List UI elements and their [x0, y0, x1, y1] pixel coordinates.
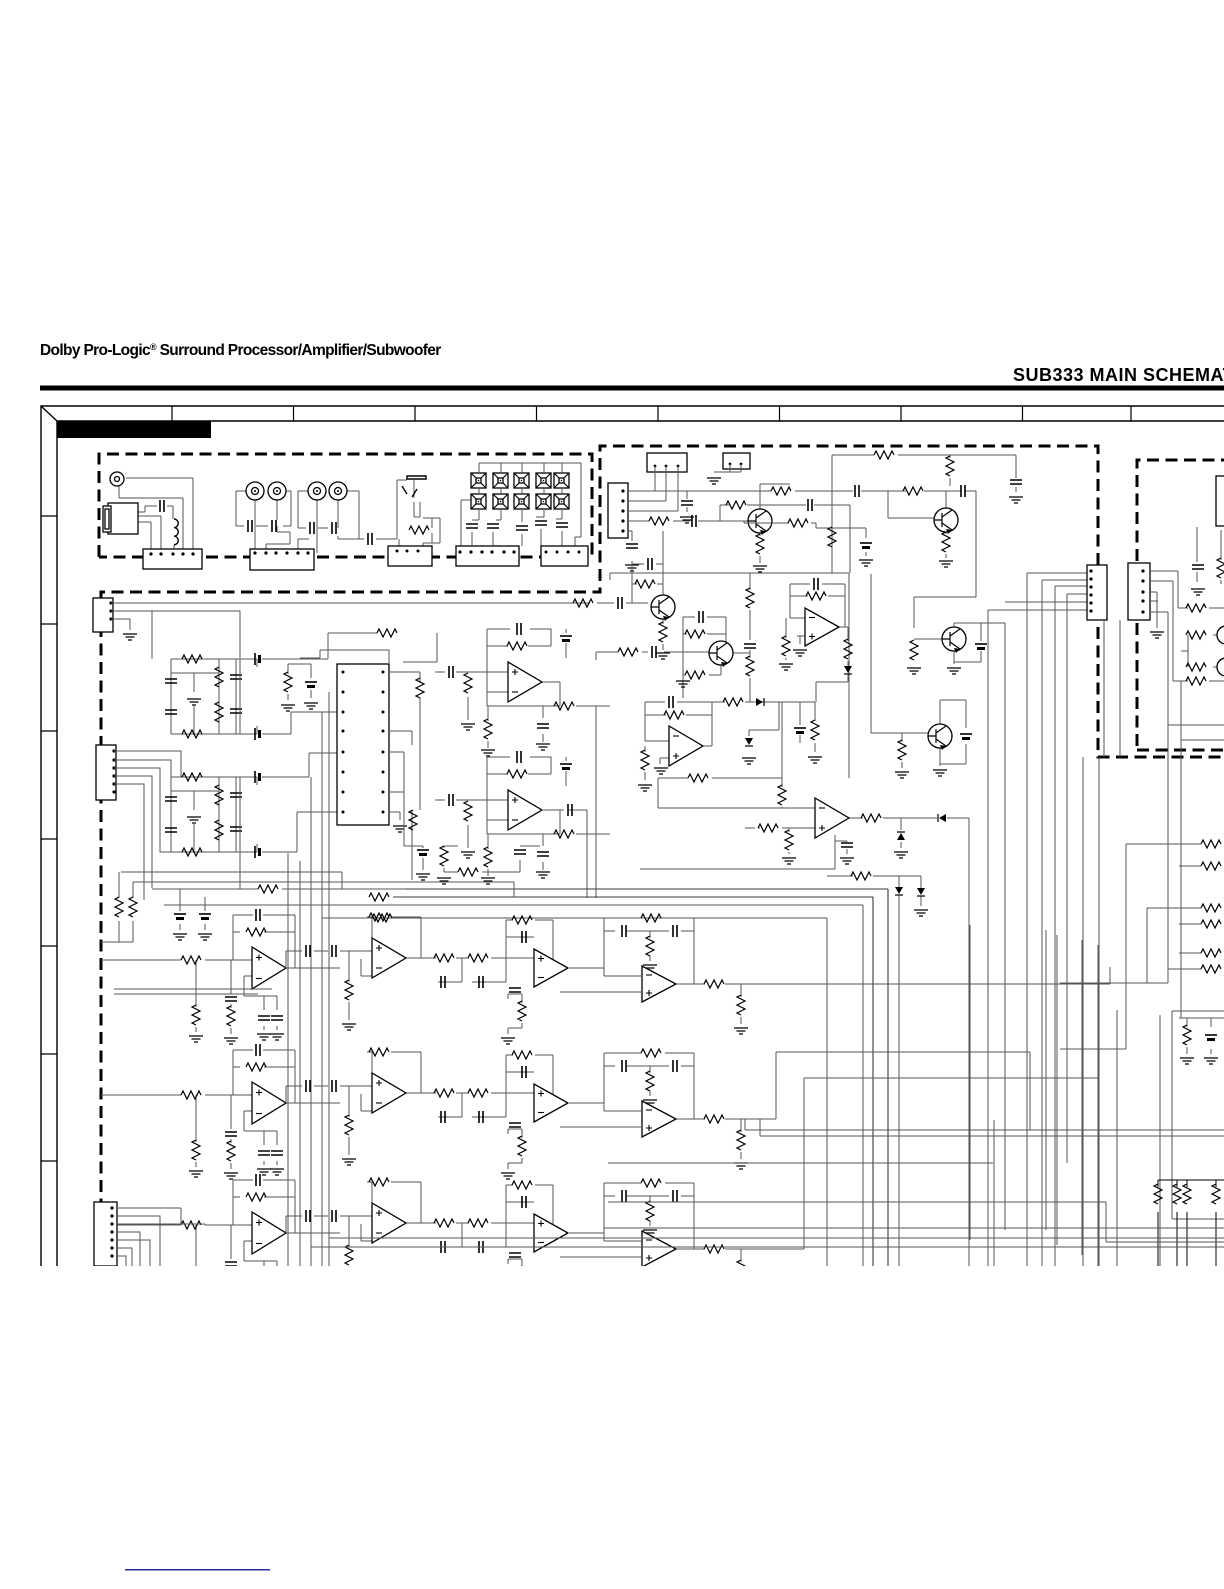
- capacitor C3a: [165, 679, 177, 683]
- resistor R30a: [898, 740, 906, 760]
- resistor R913: [704, 1115, 724, 1123]
- ground: [638, 785, 652, 791]
- resistor R33: [1186, 663, 1206, 671]
- resistor R87: [434, 954, 454, 962]
- capacitor C2Ba: [517, 751, 521, 763]
- resistor R813: [704, 980, 724, 988]
- resistor R105: [345, 1245, 353, 1265]
- capacitor C24: [794, 727, 806, 729]
- capacitor C20a: [808, 499, 812, 511]
- diode D4: [895, 887, 903, 895]
- capacitor C16: [626, 544, 638, 548]
- ground: [187, 817, 201, 823]
- connector CN4: [456, 546, 519, 566]
- wire: CN8 pin rows: [628, 491, 771, 567]
- resistor R24a: [685, 630, 705, 638]
- wire: Q5 stage: [871, 690, 966, 768]
- resistor R26a: [664, 711, 684, 719]
- ground: [859, 560, 873, 566]
- wire: IC top loop: [300, 650, 389, 664]
- resistor R23b: [828, 527, 836, 547]
- wire: filter row 10 input net: [101, 1180, 340, 1299]
- wire: speaker terminal bus: [461, 463, 581, 551]
- resistor R911: [641, 1049, 661, 1057]
- capacitor C97: [441, 1111, 445, 1123]
- capacitor C3: [310, 522, 314, 534]
- resistor R89: [512, 916, 532, 924]
- capacitor C30a: [174, 913, 186, 915]
- resistor R106: [369, 1178, 389, 1186]
- resistor R23a: [788, 519, 808, 527]
- transistor Q4: [942, 627, 966, 653]
- wire: long interconnect verticals: [970, 925, 1160, 1266]
- capacitor C14b: [652, 646, 656, 658]
- ground: [536, 872, 550, 878]
- resistor R31: [1186, 604, 1206, 612]
- resistor R58: [1173, 1184, 1181, 1204]
- ground: [224, 1173, 238, 1179]
- resistor R21: [946, 456, 954, 476]
- capacitor C82: [225, 997, 237, 1001]
- resistor R26b: [723, 698, 743, 706]
- wire: long verticals to bottom: [288, 692, 329, 1266]
- RCA jack J5: [329, 482, 347, 500]
- resistor R86: [369, 913, 389, 921]
- diode D2: [938, 814, 946, 822]
- capacitor C40: [1205, 1034, 1217, 1036]
- wire: input filter 4 net: [171, 777, 257, 852]
- capacitor C2Ad: [560, 635, 572, 637]
- capacitor C88: [479, 976, 483, 988]
- resistor R94: [227, 1141, 235, 1161]
- resistor R97: [434, 1089, 454, 1097]
- resistor R101: [181, 1221, 201, 1229]
- op-amp U9D: [642, 1101, 676, 1137]
- svg-text:SUB333 MAIN SCHEMATIC: SUB333 MAIN SCHEMATIC: [1013, 365, 1224, 385]
- svg-text:Dolby Pro-Logic® Surround Proc: Dolby Pro-Logic® Surround Processor/Ampl…: [40, 342, 441, 359]
- resistor R910: [518, 1136, 526, 1156]
- wire: Q4 stage: [914, 623, 1005, 664]
- connector CN10: [1128, 563, 1150, 620]
- ground: [501, 1303, 515, 1309]
- wire: Q2a stage: [760, 484, 790, 563]
- resistor R19: [726, 501, 746, 509]
- ground: [304, 703, 318, 709]
- capacitor C89: [522, 931, 526, 943]
- wire: row 8 stage4 inputs: [560, 976, 741, 1024]
- capacitor C1011: [509, 1253, 521, 1257]
- ground: [481, 878, 495, 884]
- ground: [625, 565, 639, 571]
- title rule: [40, 386, 1224, 391]
- resistor R810: [518, 1001, 526, 1021]
- wire: bus rows 905/918: [322, 876, 921, 1266]
- IC U1 (processor): [337, 664, 389, 825]
- resistor R42: [115, 897, 123, 917]
- capacitor C8: [516, 526, 528, 530]
- ground: [742, 758, 756, 764]
- speaker terminal SP3B: [514, 494, 529, 509]
- capacitor C13: [417, 849, 429, 851]
- capacitor C3b: [165, 710, 177, 714]
- speaker terminal SP5A: [554, 473, 569, 488]
- resistor R7: [284, 672, 292, 692]
- wire: Q2b emitter: [945, 532, 947, 558]
- capacitor C9: [535, 521, 547, 525]
- capacitor C25: [841, 843, 853, 847]
- wire: long row 573: [610, 573, 871, 778]
- hyperlink underline: [125, 1569, 270, 1571]
- ground: [753, 566, 767, 572]
- wire: row 3 output run: [741, 1078, 1098, 1249]
- wire: opamp U3 stage: [786, 584, 848, 702]
- resistor R102: [246, 1193, 266, 1201]
- resistor R3d: [182, 730, 202, 738]
- wire: Q3 stage: [664, 617, 750, 698]
- wire: row 9 stage3 net: [433, 1055, 553, 1169]
- resistor R104: [227, 1271, 235, 1291]
- capacitor C18b: [744, 644, 756, 648]
- capacitor C106: [332, 1210, 336, 1222]
- resistor R11: [440, 846, 448, 866]
- resistor R55: [1201, 965, 1221, 973]
- capacitor C102: [225, 1262, 237, 1266]
- capacitor C1: [248, 520, 252, 532]
- ground: [342, 1289, 356, 1295]
- resistor R2Ab: [464, 673, 472, 693]
- ground: [224, 1303, 238, 1309]
- ground: [1204, 1058, 1218, 1064]
- wire: relay wiring: [655, 464, 741, 511]
- capacitor C4d: [230, 827, 242, 831]
- resistor R56: [1183, 1025, 1191, 1045]
- resistor R30b: [910, 640, 918, 660]
- ground: [779, 664, 793, 670]
- ground: [947, 668, 961, 674]
- resistor R20: [874, 451, 894, 459]
- capacitor C812: [622, 925, 626, 937]
- transistor Q6 (clipped): [1217, 626, 1224, 644]
- inductor L1 coil: [174, 519, 178, 545]
- capacitor C2Bc: [537, 852, 549, 856]
- wire: top preamp row 455: [832, 455, 1016, 573]
- capacitor C94: [271, 1151, 283, 1155]
- ground: [734, 1028, 748, 1034]
- wire: filter row 9 input net: [101, 1050, 340, 1169]
- resistor R3c: [215, 702, 223, 722]
- ground: [189, 1301, 203, 1307]
- capacitor C96: [332, 1080, 336, 1092]
- resistor R82: [246, 928, 266, 936]
- resistor R2Ac: [484, 719, 492, 739]
- capacitor C0: [160, 500, 164, 512]
- speaker terminal SP5B: [554, 494, 569, 509]
- resistor R85: [345, 980, 353, 1000]
- connector CN7: [96, 745, 116, 800]
- resistor R17c: [659, 622, 667, 642]
- resistor R83: [192, 1005, 200, 1025]
- connector CN4 pins: [458, 550, 461, 553]
- wire: filter row 8 input net: [101, 915, 340, 1034]
- capacitor C813: [673, 925, 677, 937]
- resistor R84: [227, 1006, 235, 1026]
- ground: [914, 910, 928, 916]
- wire: lower links: [389, 752, 540, 872]
- speaker terminal SP3A: [514, 473, 529, 488]
- border ticks top: [172, 406, 1131, 421]
- ground: [189, 1036, 203, 1042]
- speaker terminal SP4B: [536, 494, 551, 509]
- op-amp U2A: [508, 662, 542, 702]
- ground: [393, 826, 407, 832]
- capacitor C17b: [648, 558, 652, 570]
- op-amp U2B: [508, 790, 542, 830]
- ground: [808, 757, 822, 763]
- resistor R912: [646, 1071, 654, 1091]
- capacitor C84: [271, 1016, 283, 1020]
- capacitor C2Bb: [449, 794, 453, 806]
- ground: [676, 681, 690, 687]
- resistor R4b: [215, 785, 223, 805]
- wire: CN10 pin wiring: [1149, 571, 1224, 969]
- resistor R30: [1217, 558, 1224, 578]
- wire: row 10 stage2 net: [286, 1182, 433, 1285]
- resistor R23: [806, 592, 826, 600]
- resistor R91: [181, 1091, 201, 1099]
- op-amp U9C: [534, 1084, 568, 1122]
- resistor R12: [458, 868, 478, 876]
- op-amp U8A: [252, 947, 286, 989]
- capacitor C10: [556, 523, 568, 527]
- capacitor C27: [975, 643, 987, 645]
- resistor R29a: [688, 774, 708, 782]
- resistor R16b: [771, 487, 791, 495]
- resistor R1012: [646, 1201, 654, 1221]
- resistor R14: [618, 648, 638, 656]
- ground: [270, 1169, 284, 1175]
- op-amp U10A: [252, 1212, 286, 1254]
- wire: U4 stage: [645, 702, 815, 808]
- resistor R99: [512, 1051, 532, 1059]
- transistor Q3: [709, 641, 733, 667]
- speaker terminal SP1B: [471, 494, 486, 509]
- capacitor C108: [479, 1241, 483, 1253]
- ground: [501, 1038, 515, 1044]
- relay RY2 box: [723, 453, 750, 469]
- resistor R1013: [704, 1245, 724, 1253]
- speaker terminal SP1A: [471, 473, 486, 488]
- transistor Q2b: [934, 508, 958, 534]
- resistor R2Aa: [507, 642, 527, 650]
- resistor R60: [1212, 1184, 1220, 1204]
- capacitor C105: [306, 1210, 310, 1222]
- resistor R8: [377, 629, 397, 637]
- wire: rows 506/523 left mid: [744, 505, 866, 573]
- wire: row 1 output run: [741, 967, 1110, 984]
- resistor R41: [369, 893, 389, 901]
- capacitor C87: [441, 976, 445, 988]
- transformer T1 face plate: [103, 506, 111, 532]
- resistor R2Bc: [484, 847, 492, 867]
- RCA jack J3: [268, 482, 286, 500]
- capacitor C99: [522, 1066, 526, 1078]
- capacitor C21a: [699, 611, 703, 623]
- connector CN1: [143, 549, 202, 569]
- wire: row 491 right portion: [795, 491, 976, 628]
- ground: [793, 650, 807, 656]
- RCA jack J2: [246, 482, 264, 500]
- wire: C5 to switch block: [397, 480, 440, 551]
- wire: input block links: [114, 633, 337, 900]
- resistor R4c: [215, 820, 223, 840]
- wire: CN6 pin leads: [111, 602, 573, 604]
- ground: [501, 1173, 515, 1179]
- antenna jack J1: [110, 472, 124, 486]
- resistor R18b: [746, 656, 754, 676]
- wire: IC input feeds: [288, 633, 437, 700]
- ground: [481, 750, 495, 756]
- capacitor C2Aa: [517, 623, 521, 635]
- capacitor C107: [441, 1241, 445, 1253]
- resistor R9: [416, 678, 424, 698]
- diode D3: [897, 832, 905, 840]
- capacitor C23: [669, 696, 673, 708]
- wire: U6 stage: [640, 778, 969, 1266]
- resistor R25b: [782, 636, 790, 656]
- resistor R22b: [942, 532, 950, 552]
- ground: [643, 1230, 657, 1236]
- capacitor C19a: [855, 485, 859, 497]
- ground: [257, 1034, 271, 1040]
- ground: [257, 1299, 271, 1305]
- capacitor C95: [306, 1080, 310, 1092]
- wire: rows 989/994: [114, 989, 272, 994]
- capacitor C14: [692, 515, 696, 527]
- IC U1 pins: [342, 671, 345, 674]
- capacitor C20b: [860, 542, 872, 544]
- ground: [656, 653, 670, 659]
- ground: [416, 874, 430, 880]
- capacitor C22: [814, 578, 818, 590]
- ground: [536, 744, 550, 750]
- op-amp U3: [805, 608, 839, 646]
- capacitor C109: [522, 1196, 526, 1208]
- transformer T1 body: [108, 503, 138, 534]
- capacitor C17: [618, 597, 622, 609]
- resistor R1011: [641, 1179, 661, 1187]
- connector CN5 pins: [545, 551, 548, 554]
- capacitor C30b: [199, 913, 211, 915]
- capacitor C3c: [230, 675, 242, 679]
- connector CN3: [388, 546, 432, 566]
- capacitor C811: [509, 988, 521, 992]
- wire: row 2 output run: [741, 1052, 1030, 1130]
- border frame: [41, 406, 1224, 1266]
- resistor R96: [369, 1048, 389, 1056]
- connector CN8: [608, 483, 628, 538]
- speaker terminal SP2B: [493, 494, 508, 509]
- ground: [1191, 589, 1205, 595]
- capacitor C4f: [254, 846, 256, 858]
- ground: [1180, 1058, 1194, 1064]
- resistor R19b: [903, 487, 923, 495]
- ground: [281, 705, 295, 711]
- ground: [1009, 497, 1023, 503]
- wire: Q1 stage: [573, 531, 663, 650]
- ground: [173, 934, 187, 940]
- wire: long interconnect horizontals: [608, 1119, 1224, 1163]
- ground: [654, 768, 668, 774]
- capacitor C98: [479, 1111, 483, 1123]
- capacitor C3d: [230, 709, 242, 713]
- ground: [189, 1171, 203, 1177]
- diode D5: [917, 888, 925, 896]
- wire: row 10 stage4 inputs: [560, 1241, 741, 1289]
- ground: [680, 517, 694, 523]
- capacitor C912: [622, 1060, 626, 1072]
- connector CN11: [94, 1202, 117, 1266]
- resistor R28: [861, 814, 881, 822]
- wire: right resistor fan: [1060, 844, 1201, 1049]
- diode D2a: [756, 698, 764, 706]
- ground: [187, 699, 201, 705]
- capacitor C2Ab: [449, 666, 453, 678]
- capacitor C81: [256, 909, 260, 921]
- resistor R3b: [215, 667, 223, 687]
- capacitor C15: [681, 501, 693, 505]
- dashed enclosure: main board (step outline): [101, 446, 1224, 1266]
- ground: [939, 561, 953, 567]
- capacitor C6: [466, 524, 478, 528]
- wire: input filter 3 net: [171, 659, 257, 734]
- wire: left bus resistors: [101, 872, 133, 942]
- wire: bus to right: [596, 652, 648, 660]
- capacitor C911: [509, 1123, 521, 1127]
- relay RY1 box: [647, 453, 687, 472]
- wire: row 8 stage2 net: [286, 917, 433, 1020]
- wire: op-amp 2B loop: [435, 757, 610, 876]
- relay RY1 pins: [654, 465, 657, 468]
- wire: bottom input line: [152, 852, 240, 889]
- resistor R108: [468, 1219, 488, 1227]
- connector CN1 pins: [149, 552, 152, 555]
- resistor R40: [258, 885, 278, 893]
- wire: bundle top links: [988, 573, 1087, 610]
- capacitor C4: [332, 522, 336, 534]
- resistor R1: [409, 526, 429, 534]
- resistor R2Bb: [464, 801, 472, 821]
- connector CN5: [541, 546, 588, 566]
- resistor R107: [434, 1219, 454, 1227]
- wire: preamp bottom bus: [393, 889, 888, 1266]
- capacitor C4c: [230, 793, 242, 797]
- resistor R25a: [844, 639, 852, 659]
- ground: [907, 668, 921, 674]
- resistor R1014: [737, 1260, 745, 1280]
- switch S1: [402, 476, 426, 497]
- connector CN6: [93, 598, 113, 632]
- ground: [224, 1038, 238, 1044]
- capacitor C12: [568, 804, 572, 816]
- resistor R43: [129, 897, 137, 917]
- resistor R17a: [573, 599, 593, 607]
- capacitor C93: [258, 1151, 270, 1155]
- wire: row 9 stage4 net: [568, 1053, 694, 1119]
- capacitor C26: [960, 733, 972, 735]
- capacitor C3e: [254, 653, 256, 665]
- capacitor C19b: [961, 485, 965, 497]
- ground: [840, 858, 854, 864]
